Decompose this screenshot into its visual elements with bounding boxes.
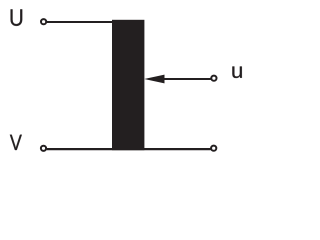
terminal u xyxy=(211,76,216,81)
node u label xyxy=(232,66,242,78)
terminal V xyxy=(41,146,46,151)
node U label xyxy=(11,9,23,26)
wire wiper to terminal u xyxy=(164,78,211,80)
wire U to resistor xyxy=(47,21,113,23)
wire V bottom rail xyxy=(47,148,211,150)
node V label xyxy=(10,135,22,150)
terminal bottom-right xyxy=(211,146,216,151)
resistor body (potentiometer bar) xyxy=(112,20,144,150)
terminal U xyxy=(41,19,46,24)
wiper arrow xyxy=(144,75,164,84)
